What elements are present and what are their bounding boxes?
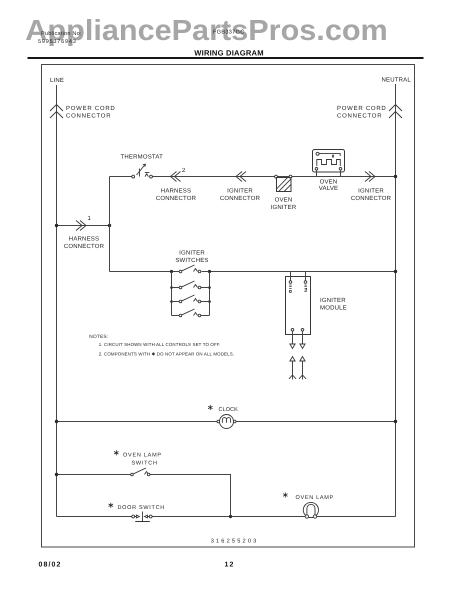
svg-text:OVEN: OVEN: [320, 178, 338, 185]
svg-text:1. CIRCUIT SHOWN WITH ALL CON: 1. CIRCUIT SHOWN WITH ALL CONTROLS SET T…: [99, 342, 221, 347]
svg-text:CONNECTOR: CONNECTOR: [66, 113, 111, 120]
svg-text:WIRING DIAGRAM: WIRING DIAGRAM: [194, 48, 263, 57]
svg-text:VALVE: VALVE: [319, 185, 338, 192]
svg-text:HARNESS: HARNESS: [69, 236, 99, 243]
svg-text:IGNITER: IGNITER: [358, 188, 384, 195]
svg-text:CONNECTOR: CONNECTOR: [156, 195, 197, 202]
svg-text:5995376943: 5995376943: [38, 39, 77, 45]
svg-text:316255203: 316255203: [211, 539, 259, 545]
svg-text:IGNITER: IGNITER: [227, 188, 253, 195]
svg-text:LINE: LINE: [50, 77, 64, 84]
svg-text:CONNECTOR: CONNECTOR: [64, 243, 105, 250]
svg-text:OVEN: OVEN: [275, 197, 293, 204]
svg-text:DOOR SWITCH: DOOR SWITCH: [118, 505, 165, 511]
svg-text:MODULE: MODULE: [320, 305, 347, 312]
svg-text:12: 12: [225, 562, 235, 569]
svg-text:NEUTRAL: NEUTRAL: [382, 77, 412, 84]
svg-text:OVEN LAMP: OVEN LAMP: [123, 453, 162, 459]
svg-text:SWITCHES: SWITCHES: [175, 257, 208, 264]
svg-text:2. COMPONENTS WITH ✱ DO NOT A: 2. COMPONENTS WITH ✱ DO NOT APPEAR ON AL…: [99, 352, 234, 357]
svg-text:Publication No:: Publication No:: [41, 31, 82, 37]
svg-text:OVEN LAMP: OVEN LAMP: [296, 495, 334, 501]
svg-text:SWITCH: SWITCH: [132, 461, 158, 467]
svg-text:POWER CORD: POWER CORD: [337, 105, 387, 112]
svg-text:CONNECTOR: CONNECTOR: [337, 113, 382, 120]
svg-text:HARNESS: HARNESS: [161, 188, 191, 195]
svg-text:IGNITER: IGNITER: [320, 297, 346, 304]
svg-text:IGNITER: IGNITER: [179, 249, 205, 256]
svg-text:08/02: 08/02: [39, 561, 62, 569]
svg-text:IGNITER: IGNITER: [271, 204, 297, 211]
svg-text:THERMOSTAT: THERMOSTAT: [121, 154, 164, 161]
svg-text:1: 1: [88, 215, 92, 222]
svg-text:CONNECTOR: CONNECTOR: [351, 195, 392, 202]
svg-text:2: 2: [182, 167, 186, 174]
svg-text:CONNECTOR: CONNECTOR: [220, 195, 261, 202]
svg-text:POWER CORD: POWER CORD: [66, 105, 116, 112]
svg-text:CLOCK: CLOCK: [219, 407, 239, 413]
svg-text:NOTES:: NOTES:: [89, 334, 108, 340]
svg-text:FGB337GC: FGB337GC: [213, 30, 245, 36]
